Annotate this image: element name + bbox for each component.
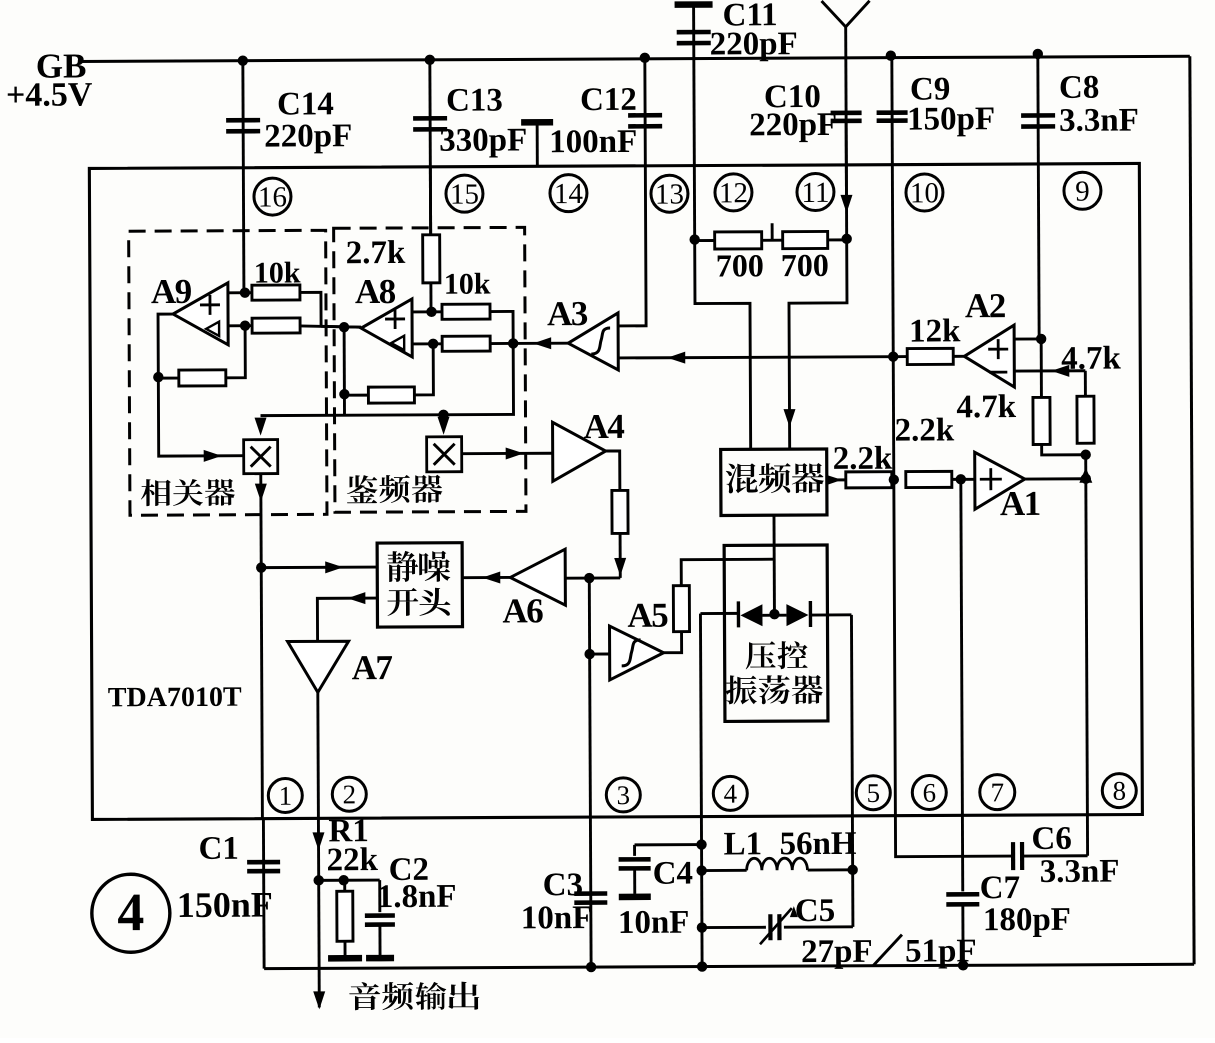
svg-text:10k: 10k (444, 268, 491, 301)
label 混频器 (726, 463, 758, 493)
A5 limiter symbol (622, 640, 641, 666)
wire pin7 line (961, 479, 963, 891)
svg-text:10: 10 (910, 177, 939, 209)
block FM detector dashed box (334, 227, 526, 512)
wire A7 out / pin2 (316, 692, 319, 818)
wire A5 out (664, 632, 682, 653)
junction R1 top (313, 875, 323, 885)
wire A3out to mixers (260, 343, 513, 415)
svg-text:10nF: 10nF (521, 900, 593, 936)
pin 9 (1064, 172, 1101, 209)
capacitor C7 (946, 892, 979, 897)
label 静噪 (387, 551, 418, 582)
resistor R1 (343, 880, 346, 891)
svg-text:C5: C5 (795, 893, 836, 929)
resistor 2.7k (423, 235, 440, 283)
svg-text:10nF: 10nF (618, 905, 690, 941)
pin 4 (713, 776, 747, 810)
wire antenna into pin11 (845, 121, 848, 239)
wire C14/pin16 (243, 61, 244, 293)
junction A8- fb (428, 339, 438, 349)
label 开头 (387, 588, 418, 616)
svg-text:16: 16 (258, 181, 287, 213)
svg-text:C6: C6 (1031, 821, 1072, 857)
junction A3 out (508, 338, 518, 348)
wire pin3 line (590, 654, 591, 967)
capacitor C3 (574, 891, 607, 896)
wire squelch to A7 (317, 598, 377, 641)
junction A9- feedback (240, 320, 250, 330)
pin 11 (797, 173, 834, 210)
svg-text:TDA7010T: TDA7010T (108, 682, 242, 714)
wire A9 fb right up (226, 326, 245, 378)
junction C3 rail (586, 962, 596, 972)
wire A4 out (606, 451, 620, 491)
svg-text:1.8nF: 1.8nF (377, 879, 457, 915)
capacitor C9 (877, 110, 908, 115)
multiplier X2 (427, 437, 462, 472)
svg-text:13: 13 (655, 178, 684, 210)
wire C11/pin12 (694, 7, 695, 240)
IC U1 TDA7010T outline (89, 163, 1142, 819)
junction rail-C9 (886, 50, 896, 60)
svg-text:A4: A4 (583, 407, 624, 446)
wire pin6 line (892, 357, 895, 480)
resistor 2.2k second (906, 471, 952, 487)
label 相关器 (141, 479, 171, 506)
pin 10 (906, 174, 943, 211)
svg-text:C12: C12 (580, 82, 637, 118)
block squelch box (377, 543, 462, 627)
resistor 2.2k first (846, 472, 892, 488)
pin 7 (980, 775, 1015, 810)
junction A8 fb left (339, 389, 349, 399)
wire A9 - input (228, 324, 252, 327)
wire X1 to squelch (261, 566, 377, 569)
wire C7 down (961, 904, 964, 965)
wire A8 fb right up (414, 344, 433, 395)
ground C4 (619, 894, 651, 901)
pin 1 (268, 778, 302, 812)
svg-text:A5: A5 (627, 596, 668, 635)
wire pin5 line (851, 615, 852, 927)
wire mixer to VCO (773, 515, 776, 613)
resistor 10k A8 upper (442, 304, 490, 319)
wire A8 output left (321, 326, 361, 327)
A8 inverting mark (391, 336, 404, 350)
junction rail-C13 (425, 55, 435, 65)
figure number circle 4 (92, 874, 170, 952)
junction X1/squelch (256, 562, 266, 572)
multiplier X1 (244, 440, 278, 474)
pin 14 (550, 175, 587, 212)
svg-text:14: 14 (554, 178, 584, 210)
wire A6 input line (565, 576, 620, 579)
junction rail-C12 (640, 53, 650, 63)
wire pin15 to 2.7k (429, 167, 432, 235)
resistor A5 out (673, 586, 689, 632)
block VCO box (724, 545, 828, 721)
junction A8 out (339, 322, 349, 332)
varactor wires (700, 612, 738, 615)
op-amp A7 (288, 641, 349, 692)
junction L1/pin5 (847, 865, 857, 875)
svg-text:C8: C8 (1059, 70, 1100, 106)
svg-text:A2: A2 (965, 286, 1005, 325)
wire A2 + input (1014, 337, 1042, 340)
wire power rail +4.5V top (78, 56, 1190, 61)
ground C2 (378, 925, 381, 956)
capacitor C5 variable (702, 926, 766, 929)
pin 8 (1102, 774, 1136, 808)
varactor left bar (737, 601, 741, 627)
junction pin4/rail (697, 961, 707, 971)
wire pin2 audio line (317, 818, 321, 1007)
op-amp A8 (361, 299, 412, 357)
wire mixer to 2.2k (827, 478, 846, 481)
junction rail-C8 (1033, 49, 1043, 59)
svg-text:2.2k: 2.2k (833, 441, 893, 477)
wire A8 - input (412, 342, 442, 345)
wire C6 right (1024, 854, 1088, 857)
svg-text:C1: C1 (198, 831, 239, 867)
wire A8 lower to A3 out (490, 342, 513, 345)
A8 plus (385, 318, 405, 321)
wire R1/C2 top (319, 879, 380, 882)
svg-text:150nF: 150nF (177, 885, 273, 925)
svg-text:C4: C4 (653, 856, 694, 892)
junction 2.2k/pin7 (956, 474, 966, 484)
inductor L1 (702, 869, 747, 872)
wire 2.7k to A8+ (429, 283, 432, 312)
resistor A4 out (612, 490, 628, 533)
junction 2.7k/A8+ (426, 307, 436, 317)
wire 700-left to mixer (695, 239, 751, 449)
resistor 700 left (695, 239, 715, 242)
label 鉴频器 (347, 475, 378, 503)
wire A3 output (513, 342, 568, 345)
svg-text:8: 8 (1112, 776, 1126, 806)
svg-text:15: 15 (450, 178, 479, 210)
wire A3 lower input (618, 357, 893, 358)
junction varactor center (769, 609, 779, 619)
svg-text:+4.5V: +4.5V (6, 76, 93, 113)
capacitor C1 (247, 860, 280, 865)
capacitor C6 (1011, 842, 1015, 870)
wire A9 lower to A8 out (300, 326, 361, 328)
svg-text:220pF: 220pF (710, 26, 798, 62)
capacitor C10 (831, 110, 862, 115)
wire to A1 input (952, 478, 975, 481)
capacitor C14 (226, 118, 260, 123)
antenna (822, 1, 870, 27)
svg-text:C13: C13 (446, 82, 503, 118)
wire down to A1 out (1084, 455, 1087, 479)
junction A6/A5 (584, 573, 594, 583)
wire A8 + input (412, 310, 442, 313)
svg-text:C3: C3 (543, 867, 584, 903)
capacitor C13 (413, 116, 447, 121)
svg-text:12k: 12k (909, 313, 961, 349)
pin 16 (254, 178, 291, 215)
svg-text:700: 700 (781, 247, 829, 283)
svg-text:2.2k: 2.2k (895, 412, 955, 448)
wire C12/pin13/A3 (617, 58, 646, 326)
wire 10k upper jog A8 (490, 311, 513, 343)
svg-text:2: 2 (342, 779, 356, 809)
junction A1 out (1081, 474, 1091, 484)
svg-text:12: 12 (719, 177, 748, 209)
pin 13 (651, 175, 688, 212)
resistor 10k A9 lower (252, 318, 300, 333)
junction A9 fb left (153, 372, 163, 382)
pin 15 (446, 175, 483, 212)
svg-text:7: 7 (990, 777, 1004, 807)
resistor 10k A9 upper (252, 285, 300, 300)
junction rail-C14 (238, 55, 248, 65)
wire pin1/C1 (262, 819, 266, 969)
wire pin8 line (1086, 479, 1088, 856)
svg-text:220pF: 220pF (264, 118, 352, 154)
capacitor C11 (677, 30, 711, 35)
pin 5 (856, 776, 890, 810)
junction pin4/L1 (696, 865, 706, 875)
wire C8/pin9 (1038, 54, 1039, 339)
svg-text:A6: A6 (502, 591, 543, 630)
svg-text:9: 9 (1075, 176, 1090, 208)
wire into X1 top (255, 418, 267, 436)
wire C9/pin10 (892, 56, 893, 357)
wire A5 input (590, 653, 610, 656)
capacitor C8 (1021, 113, 1055, 118)
wire 10k upper jog (300, 292, 321, 326)
junction X2 top (438, 410, 448, 420)
wire C4 top (635, 843, 702, 846)
svg-text:5: 5 (866, 778, 880, 808)
wire A5 to VCO (681, 559, 774, 585)
op-amp A4 (553, 422, 606, 481)
svg-text:4: 4 (723, 779, 737, 809)
junction C8/A2+ (1036, 334, 1046, 344)
varactor right bar (809, 601, 813, 627)
wire A6A5 junction down (588, 578, 591, 654)
resistor A9 feedback (158, 377, 179, 380)
junction 700 left (689, 234, 699, 244)
resistor 4.7k left (1033, 397, 1050, 444)
pin 6 (912, 775, 946, 809)
label 振荡器 (726, 675, 757, 704)
op-amp A6 (510, 549, 565, 605)
A9 plus (200, 303, 220, 306)
wire C13/pin15 (428, 60, 432, 235)
op-amp A1 (975, 452, 1025, 509)
pin 2 (332, 777, 366, 811)
resistor 4.7k right (1077, 396, 1094, 443)
pin 12 (715, 174, 752, 211)
wire A9 out to X1 (158, 377, 243, 456)
junction A5 input (584, 649, 594, 659)
wire A2+ down to 4.7k (1040, 339, 1043, 398)
svg-text:A3: A3 (547, 294, 588, 333)
ground pin14 stub (521, 119, 553, 126)
svg-text:2.7k: 2.7k (346, 235, 406, 271)
op-amp A9 (173, 283, 228, 345)
block mixer box (721, 449, 827, 515)
A2 plus (988, 348, 1008, 351)
wire X1 output down (261, 474, 263, 819)
svg-text:150pF: 150pF (907, 101, 995, 137)
svg-text:51pF: 51pF (905, 933, 977, 969)
junction pin4/C5 (697, 922, 707, 932)
wire A8 out down (343, 327, 346, 415)
junction pin16/A9+ (240, 287, 250, 297)
wire A2 - input (1014, 369, 1085, 372)
A9 inverting mark (206, 322, 219, 336)
capacitor C12 (628, 113, 662, 118)
svg-text:27pF: 27pF (801, 934, 873, 970)
wire A9 output down (158, 314, 173, 377)
svg-text:A1: A1 (1000, 484, 1040, 523)
wire right outer edge (1190, 56, 1194, 964)
wire 12k to A2 (953, 355, 964, 358)
svg-text:11: 11 (801, 177, 829, 209)
svg-text:56nH: 56nH (779, 826, 857, 862)
svg-text:3.3nF: 3.3nF (1059, 102, 1139, 138)
block correlator dashed box (129, 230, 327, 515)
junction C7/rail (958, 960, 968, 970)
svg-text:1: 1 (278, 781, 292, 811)
svg-text:6: 6 (922, 778, 936, 808)
svg-text:A8: A8 (355, 272, 396, 311)
wire A6 out (462, 576, 510, 579)
junction C4/pin4 (696, 839, 706, 849)
wire A2- down (1084, 371, 1087, 397)
svg-text:C14: C14 (277, 86, 334, 122)
svg-text:220pF: 220pF (749, 107, 837, 143)
wire into X2 top (438, 417, 450, 435)
junction 700 right (841, 234, 851, 244)
junction C9/A3 input (888, 351, 898, 361)
wire A4 res down (619, 533, 622, 578)
svg-text:L1: L1 (723, 826, 762, 862)
svg-text:22k: 22k (327, 842, 379, 878)
resistor A8 feedback (344, 394, 368, 397)
op-amp A2 (964, 325, 1014, 387)
resistor 10k A8 lower (442, 336, 490, 351)
A1 plus (980, 478, 1002, 481)
wire 4.7k bottoms (1042, 444, 1086, 455)
wire pin4 line (700, 614, 702, 967)
A2 minus (989, 371, 1007, 374)
wire 700-right to mixer (789, 239, 848, 449)
svg-text:A9: A9 (151, 272, 192, 311)
varactor left diode (740, 604, 762, 626)
varactor right diode (786, 604, 808, 626)
op-amp A3 (568, 313, 618, 370)
svg-text:4.7k: 4.7k (956, 389, 1016, 425)
svg-text:4: 4 (117, 882, 144, 942)
svg-text:C7: C7 (980, 870, 1021, 906)
svg-text:3.3nF: 3.3nF (1040, 854, 1120, 890)
A3 limiter symbol (591, 328, 610, 354)
wire A9 + input (228, 291, 252, 294)
center stub (762, 239, 783, 242)
svg-text:A7: A7 (352, 648, 393, 687)
svg-text:330pF: 330pF (439, 122, 527, 158)
svg-text:700: 700 (716, 247, 764, 283)
svg-text:100nF: 100nF (549, 124, 637, 160)
junction 2.2k mid (889, 474, 899, 484)
junction R1 (338, 875, 348, 885)
svg-text:3: 3 (616, 780, 630, 810)
resistor 12k (907, 348, 953, 364)
ground R1 (344, 941, 347, 956)
resistor 700 right (783, 231, 828, 248)
op-amp A5 (610, 626, 664, 680)
svg-text:4.7k: 4.7k (1061, 341, 1121, 377)
capacitor C2 (378, 880, 381, 912)
wire A1 output (1025, 477, 1086, 480)
label 压控 (746, 641, 776, 669)
wire X2 to A4 (462, 452, 553, 455)
svg-text:10k: 10k (254, 256, 301, 289)
pin 3 (606, 778, 640, 812)
junction 4.7k/A1 (1080, 450, 1090, 460)
svg-text:180pF: 180pF (983, 902, 1071, 938)
capacitor C4 (633, 845, 636, 856)
label audio out 音频输出 (349, 982, 380, 1010)
ground C11 top bar (675, 1, 713, 8)
wire bottom ground rail (264, 964, 1194, 968)
